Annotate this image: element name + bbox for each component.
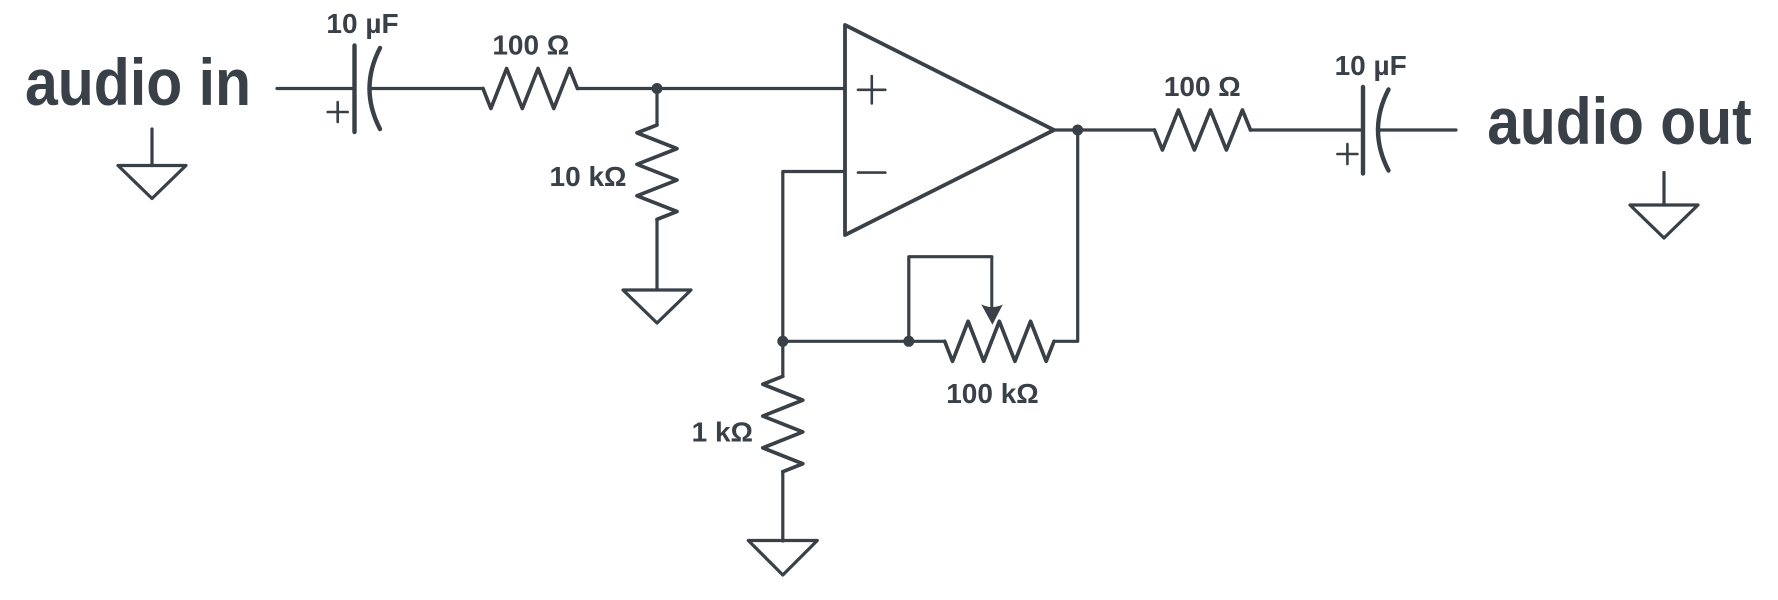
resistor R2 10 kOhm: [637, 125, 677, 219]
resistor R4 1 kOhm: [763, 376, 803, 471]
wire: R4 to ground G3: [781, 472, 784, 541]
svg-text:100 kΩ: 100 kΩ: [946, 378, 1039, 409]
svg-text:100 Ω: 100 Ω: [492, 30, 569, 61]
svg-text:1 kΩ: 1 kΩ: [692, 417, 753, 448]
wire: feedback node down to R4: [781, 341, 784, 376]
ground G1 (audio in reference): [118, 129, 186, 199]
potentiometer R5 100 kOhm: [945, 321, 1054, 361]
resistor R3 100 Ohm: [1154, 110, 1250, 150]
capacitor C2 10uF (polarized): [1363, 87, 1389, 174]
wire: R3 to C2: [1251, 128, 1364, 131]
svg-text:10 µF: 10 µF: [1335, 50, 1407, 81]
wire: R1 to op-amp + input (through node A): [577, 87, 845, 90]
node D junction dot (output): [1072, 125, 1083, 136]
wire: pot to output: [1054, 130, 1078, 341]
wire: R2 to ground G2: [655, 219, 658, 290]
resistor R1 100 Ohm: [483, 69, 577, 109]
wire: C2 to audio out: [1378, 128, 1457, 131]
wiper arrowhead: [981, 304, 1003, 325]
wire: audio in to C1: [277, 87, 355, 90]
node A junction dot: [652, 83, 663, 94]
ground G4 (audio out reference): [1630, 173, 1698, 239]
svg-text:10 µF: 10 µF: [326, 8, 398, 39]
svg-text:10 kΩ: 10 kΩ: [550, 161, 627, 192]
wire: inverting input to feedback: [783, 172, 845, 342]
ground G2: [623, 290, 691, 323]
node B junction dot (feedback node): [777, 336, 788, 347]
wire: feedback node to pot: [783, 340, 945, 343]
svg-text:audio out: audio out: [1487, 84, 1752, 158]
C1 plus marker: [328, 102, 348, 122]
wire: node A down to R2: [655, 89, 658, 126]
wiper arrow stem: [990, 257, 993, 307]
wire: C1 to R1: [369, 87, 483, 90]
capacitor C1 10uF (polarized): [355, 46, 381, 133]
U1 - input marker: [858, 171, 885, 174]
C2 plus marker: [1337, 144, 1357, 164]
U1 + input marker: [858, 76, 885, 103]
svg-text:audio in: audio in: [25, 45, 251, 119]
op-amp U1: [845, 25, 1054, 235]
wire: op-amp output to R3: [1054, 128, 1154, 131]
wire: wiper tie up and over: [909, 257, 992, 342]
node C junction dot (wiper tie): [903, 336, 914, 347]
svg-text:100 Ω: 100 Ω: [1164, 71, 1241, 102]
ground G3: [748, 541, 817, 576]
